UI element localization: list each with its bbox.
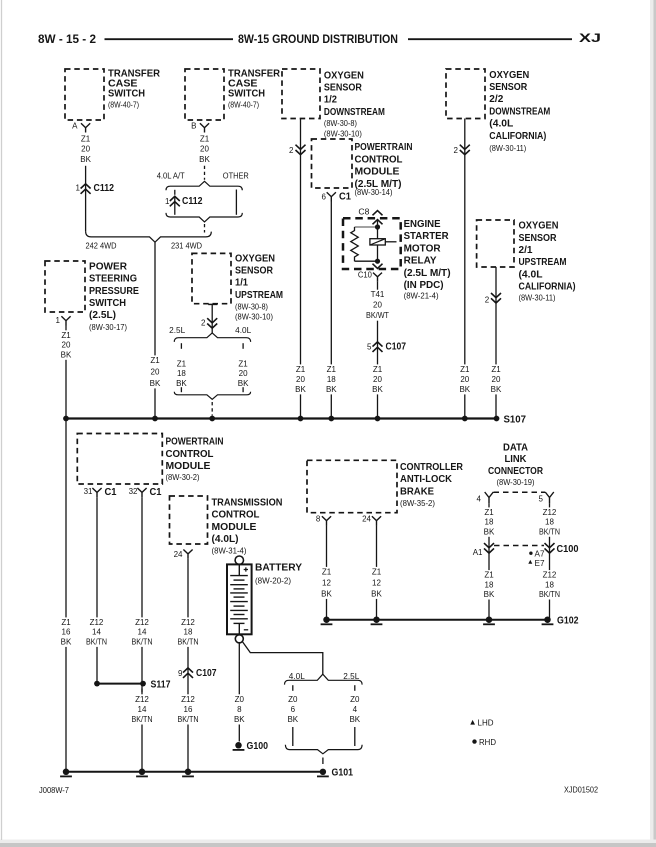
- svg-text:G100: G100: [247, 741, 269, 752]
- data link connector label: [488, 442, 544, 487]
- svg-text:OXYGEN: OXYGEN: [489, 70, 529, 81]
- svg-text:CONTROL: CONTROL: [166, 449, 214, 460]
- wire from PCM pin 32 to bottom ground bus: [141, 497, 143, 772]
- svg-text:BK: BK: [80, 155, 91, 164]
- wire Z12 16 BK/TN label: [176, 694, 201, 724]
- wire Z1 20 BK (4WD) label: [148, 355, 161, 388]
- oxygen sensor 2/1 upstream box: [477, 220, 514, 267]
- svg-text:C107: C107: [196, 668, 217, 679]
- transfer case switch (A) pin connector: [81, 123, 90, 132]
- svg-text:8W-15 GROUND DISTRIBUTION: 8W-15 GROUND DISTRIBUTION: [238, 32, 398, 46]
- ground bus G102: [327, 619, 548, 621]
- wire OTHER branch: [235, 190, 237, 215]
- svg-text:12: 12: [322, 578, 331, 587]
- svg-text:Z1: Z1: [491, 365, 501, 374]
- svg-text:C10: C10: [358, 271, 373, 280]
- variant brace top (battery branch): [285, 674, 363, 684]
- wire Z1 18 BK (2.5L) label: [176, 360, 187, 388]
- svg-text:Z1: Z1: [150, 356, 160, 365]
- svg-text:Z1: Z1: [484, 508, 494, 517]
- svg-text:BK: BK: [234, 715, 245, 724]
- svg-text:14: 14: [138, 705, 147, 714]
- svg-text:18: 18: [327, 375, 336, 384]
- svg-text:1/1: 1/1: [235, 278, 248, 289]
- svg-text:BK/TN: BK/TN: [132, 637, 153, 646]
- svg-text:2.5L: 2.5L: [169, 326, 186, 335]
- svg-text:B: B: [191, 122, 196, 131]
- wire 2.5L branch to G101 brace: [354, 727, 356, 746]
- svg-text:MODULE: MODULE: [355, 167, 400, 178]
- svg-text:SENSOR: SENSOR: [324, 83, 363, 94]
- svg-text:8W - 15 - 2: 8W - 15 - 2: [38, 32, 96, 46]
- connector C112 pin 1 (B branch): [165, 196, 203, 207]
- svg-text:20: 20: [151, 367, 160, 376]
- wire T41 20 BK/WT label: [364, 290, 391, 321]
- svg-text:2/1: 2/1: [519, 245, 533, 256]
- svg-text:BK: BK: [484, 590, 495, 599]
- oxygen sensor 1/1 upstream box: [192, 253, 231, 303]
- svg-text:T41: T41: [371, 290, 385, 299]
- connector C107 pin 9: [175, 668, 217, 680]
- svg-text:1: 1: [76, 184, 81, 193]
- svg-text:1: 1: [56, 316, 61, 325]
- wire Z1 20 BK (oxygen 1/2) label: [294, 364, 307, 394]
- svg-text:18: 18: [485, 518, 494, 527]
- wire stub 2.5L branch upper: [180, 343, 182, 349]
- relay coil output lead: [385, 241, 396, 243]
- svg-text:20: 20: [296, 375, 305, 384]
- svg-text:18: 18: [184, 628, 193, 637]
- svg-text:1: 1: [165, 197, 170, 206]
- wire from switch A to C112: [85, 166, 87, 232]
- junction on S107 at x=331.3: [328, 416, 334, 422]
- wire Z1 12 BK (CABS 24) label: [370, 567, 383, 599]
- svg-text:(8W-30-14): (8W-30-14): [355, 188, 393, 197]
- svg-text:(4.0L: (4.0L: [519, 269, 543, 280]
- svg-text:Z12: Z12: [181, 618, 195, 627]
- powertrain control module (2.5L M/T) box: [312, 139, 353, 188]
- wire from combiner to ground bus S107: [154, 242, 156, 418]
- wire Z1 20 BK (4.0L) label: [238, 360, 249, 388]
- svg-text:BATTERY: BATTERY: [255, 563, 302, 574]
- junction on S107 at x=155: [152, 416, 158, 422]
- svg-text:A: A: [72, 122, 78, 131]
- pin 24 connector (TCM): [174, 550, 193, 559]
- connector C100 pin A7 marker: [529, 549, 545, 558]
- svg-text:SWITCH: SWITCH: [228, 89, 265, 100]
- svg-text:Z1: Z1: [81, 134, 91, 143]
- ground junction at x=142: [139, 769, 146, 776]
- svg-text:(8W-30-8): (8W-30-8): [235, 302, 268, 311]
- junction on S107 at x=212.2: [209, 416, 215, 422]
- svg-text:UPSTREAM: UPSTREAM: [519, 257, 567, 268]
- pin 4 (DLC): [477, 495, 482, 504]
- header rule left: [105, 38, 234, 40]
- svg-text:5: 5: [539, 495, 544, 504]
- svg-text:Z12: Z12: [135, 695, 149, 704]
- svg-text:SWITCH: SWITCH: [89, 298, 126, 309]
- ground G100: [233, 741, 269, 752]
- svg-text:Z1: Z1: [177, 360, 187, 369]
- battery plus sign: [244, 567, 248, 571]
- connector C107 pin 5: [367, 342, 406, 353]
- transfer case switch (A) label: [108, 69, 161, 110]
- wire Z12 18 BK/TN (DLC upper) label: [537, 507, 562, 536]
- ground junction at x=326.5: [323, 616, 330, 623]
- wire from CABS pin 24 to ground bus G102: [376, 525, 378, 620]
- svg-text:UPSTREAM: UPSTREAM: [235, 290, 283, 301]
- svg-text:Z12: Z12: [90, 618, 104, 627]
- wire 4.0L A/T branch: [174, 196, 176, 215]
- svg-text:(8W-30-11): (8W-30-11): [519, 294, 556, 303]
- svg-text:BK: BK: [61, 350, 72, 359]
- svg-text:31: 31: [84, 487, 93, 496]
- powertrain control module (2.5L M/T) label: [355, 142, 413, 197]
- svg-text:Z0: Z0: [288, 695, 298, 704]
- svg-text:(8W-40-7): (8W-40-7): [228, 101, 259, 110]
- battery internal plates: [230, 564, 248, 634]
- junction on S107 at x=496.5: [494, 416, 500, 422]
- wire stub 4.0L branch lower: [242, 387, 244, 392]
- svg-text:BK: BK: [349, 715, 360, 724]
- transmission control module box: [170, 496, 208, 544]
- pin 31 connector C1: [84, 487, 117, 498]
- ground junction at x=188: [185, 769, 192, 776]
- ground G102: [542, 616, 579, 627]
- svg-text:A1: A1: [473, 548, 483, 557]
- svg-text:DOWNSTREAM: DOWNSTREAM: [489, 106, 550, 117]
- svg-text:C100: C100: [557, 544, 579, 555]
- wire Z1 20 BK (power steering) label: [59, 330, 72, 360]
- oxygen sensor 1/1 pin tick: [208, 303, 217, 305]
- ground bus S107: [66, 417, 497, 419]
- wire Z12 14 BK/TN (pin 32 upper) label: [130, 617, 155, 647]
- svg-text:(8W-30-2): (8W-30-2): [166, 473, 200, 482]
- svg-text:STARTER: STARTER: [404, 231, 450, 242]
- svg-text:20: 20: [492, 375, 501, 384]
- svg-text:8: 8: [316, 515, 321, 524]
- svg-text:20: 20: [200, 145, 209, 154]
- svg-text:(8W-30-10): (8W-30-10): [324, 129, 362, 138]
- svg-text:2: 2: [201, 319, 206, 328]
- svg-text:BK/TN: BK/TN: [178, 637, 199, 646]
- connector C100 pin E7 marker: [528, 559, 545, 568]
- relay coil wire upper: [377, 220, 379, 239]
- svg-text:S117: S117: [151, 679, 171, 690]
- svg-text:2: 2: [289, 146, 294, 155]
- junction on S107 at x=377.5: [375, 416, 381, 422]
- svg-text:C1: C1: [339, 191, 351, 202]
- wire Z1 20 BK (oxygen 2/2) label: [458, 364, 471, 394]
- svg-text:BK: BK: [199, 155, 210, 164]
- wire Z12 18 BK/TN (DLC lower) label: [537, 570, 562, 599]
- svg-text:MODULE: MODULE: [212, 522, 257, 533]
- relay bottom junction: [375, 259, 380, 264]
- svg-text:PRESSURE: PRESSURE: [89, 286, 139, 297]
- svg-text:G101: G101: [332, 768, 354, 779]
- svg-text:Z12: Z12: [543, 571, 557, 580]
- svg-text:CONTROLLER: CONTROLLER: [400, 462, 464, 473]
- svg-text:G102: G102: [557, 616, 579, 627]
- svg-text:Z1: Z1: [238, 360, 248, 369]
- svg-text:(8W-20-2): (8W-20-2): [255, 577, 291, 586]
- svg-text:RELAY: RELAY: [404, 256, 437, 267]
- connector pin 2 (oxygen 1/1): [201, 318, 217, 328]
- svg-text:Z0: Z0: [350, 695, 360, 704]
- dashed wire below variant brace: [204, 224, 206, 233]
- svg-text:MODULE: MODULE: [166, 461, 211, 472]
- controller anti-lock brake label: [400, 462, 464, 508]
- variant brace bottom (oxygen 1/1): [174, 392, 250, 400]
- wire from relay C10 to ground bus S107: [377, 282, 379, 419]
- svg-text:24: 24: [174, 550, 183, 559]
- wire Z12 14 BK/TN (pin 31) label: [84, 617, 109, 647]
- svg-text:J008W-7: J008W-7: [39, 786, 70, 795]
- wire Z12 14 BK/TN (below S117) label: [130, 694, 155, 724]
- variant brace bottom (battery branch): [285, 745, 362, 754]
- wire stub 2.5L branch (battery): [354, 685, 356, 691]
- relay coil symbol: [370, 239, 385, 245]
- svg-text:(8W-40-7): (8W-40-7): [108, 101, 139, 110]
- connector pin 2 (oxygen 2/2): [454, 145, 470, 155]
- svg-text:Z12: Z12: [135, 618, 149, 627]
- svg-text:LINK: LINK: [505, 454, 528, 465]
- svg-text:5: 5: [367, 342, 372, 351]
- wire from PCM pin 6 to ground bus S107: [330, 202, 332, 419]
- header rule right: [408, 38, 572, 40]
- ground junction at x=489: [486, 616, 493, 623]
- splice S117 junction right: [140, 681, 146, 687]
- oxygen sensor 2/1 upstream label: [519, 221, 576, 303]
- svg-text:BK: BK: [287, 715, 298, 724]
- svg-text:(8W-35-2): (8W-35-2): [400, 499, 435, 508]
- battery minus sign: [244, 629, 248, 631]
- combiner brace 242 4WD / 231 4WD: [86, 231, 212, 242]
- wire from oxygen sensor 1/1 to variant brace: [211, 304, 213, 333]
- svg-text:(8W-30-8): (8W-30-8): [324, 119, 357, 128]
- svg-text:Z1: Z1: [61, 331, 71, 340]
- controller anti-lock brake box: [307, 460, 397, 512]
- svg-text:CALIFORNIA): CALIFORNIA): [489, 131, 546, 142]
- pin 6 connector C1: [322, 191, 352, 202]
- wire Z1 18 BK (DLC lower) label: [482, 570, 495, 599]
- svg-text:(8W-21-4): (8W-21-4): [404, 292, 439, 301]
- variant brace top (oxygen 1/1): [174, 333, 250, 342]
- splice S117 link: [97, 683, 143, 685]
- svg-text:(8W-30-19): (8W-30-19): [497, 478, 535, 487]
- wire from power steering switch to bottom ground bus: [65, 326, 67, 772]
- svg-text:Z12: Z12: [543, 508, 557, 517]
- engine starter motor relay label: [404, 219, 451, 301]
- svg-text:BK: BK: [176, 379, 187, 388]
- svg-text:Z1: Z1: [322, 567, 332, 576]
- connector pin 2 (oxygen 2/1): [485, 293, 501, 305]
- svg-text:LHD: LHD: [478, 718, 494, 727]
- svg-text:BK/WT: BK/WT: [366, 311, 389, 320]
- dashed wire to ground bus S107 (oxygen 1/1): [211, 402, 213, 416]
- wire Z1 18 BK (DLC upper) label: [482, 507, 495, 536]
- svg-text:DATA: DATA: [503, 442, 528, 453]
- svg-text:DOWNSTREAM: DOWNSTREAM: [324, 107, 385, 118]
- wire from oxygen sensor 1/2 to ground bus S107: [300, 119, 302, 419]
- svg-text:CONTROL: CONTROL: [212, 510, 260, 521]
- connector C8 chevron above relay: [373, 211, 383, 216]
- relay top junction: [375, 224, 380, 229]
- wire Z1 12 BK (CABS 8) label: [320, 567, 333, 599]
- wire Z12 18 BK/TN (TCM) label: [176, 617, 201, 647]
- oxygen sensor 1/2 downstream label: [324, 70, 385, 138]
- junction on S107 at x=464.8: [462, 416, 468, 422]
- svg-text:STEERING: STEERING: [89, 274, 137, 285]
- svg-text:6: 6: [291, 705, 296, 714]
- relay internal bottom lead: [355, 260, 378, 262]
- svg-text:XJ: XJ: [579, 31, 601, 45]
- power steering pressure switch label: [89, 261, 139, 332]
- pin 1 (power steering switch): [56, 316, 71, 326]
- svg-text:32: 32: [129, 487, 138, 496]
- connector pin 2 (oxygen 1/2): [289, 145, 305, 155]
- svg-text:BK: BK: [326, 385, 337, 394]
- svg-text:CALIFORNIA): CALIFORNIA): [519, 282, 576, 293]
- svg-text:(4.0L: (4.0L: [489, 119, 513, 130]
- splice S117 junction left: [94, 681, 100, 687]
- svg-text:2/2: 2/2: [489, 94, 503, 105]
- svg-text:OXYGEN: OXYGEN: [324, 70, 364, 81]
- svg-text:SENSOR: SENSOR: [489, 82, 528, 93]
- battery B1 box: [227, 564, 252, 634]
- svg-text:OXYGEN: OXYGEN: [519, 221, 559, 232]
- svg-text:RHD: RHD: [479, 738, 496, 747]
- engine starter motor relay box: [343, 218, 401, 269]
- svg-text:2: 2: [485, 296, 490, 305]
- svg-text:2.5L: 2.5L: [343, 672, 360, 681]
- svg-text:(8W-31-4): (8W-31-4): [212, 546, 247, 555]
- svg-text:16: 16: [62, 628, 71, 637]
- pin 24 (CABS): [362, 515, 381, 526]
- wire stub below S117: [141, 689, 143, 693]
- wire branch from battery negative to engine-variant brace: [242, 642, 322, 675]
- junction on S107 at x=66: [63, 416, 69, 422]
- svg-text:BK: BK: [295, 385, 306, 394]
- svg-text:20: 20: [81, 145, 90, 154]
- powertrain control module box: [77, 434, 162, 485]
- svg-text:BK: BK: [150, 379, 161, 388]
- ground bus to G101: [66, 771, 323, 773]
- svg-text:Z1: Z1: [61, 618, 71, 627]
- pin 8 (CABS): [316, 515, 331, 526]
- svg-text:SENSOR: SENSOR: [519, 233, 558, 244]
- wire from DLC pin 4 to ground bus G102: [488, 503, 490, 619]
- svg-text:(8W-30-10): (8W-30-10): [235, 313, 273, 322]
- svg-text:9: 9: [178, 669, 183, 678]
- svg-text:OTHER: OTHER: [223, 171, 249, 180]
- powertrain control module label: [166, 437, 224, 482]
- dashed wire from switch B to variant brace: [204, 166, 206, 180]
- connector C112 pin 1 (A branch): [76, 183, 115, 194]
- svg-text:20: 20: [373, 375, 382, 384]
- svg-text:E7: E7: [535, 559, 546, 568]
- connector C8 chevron inside relay: [373, 220, 383, 225]
- svg-text:S107: S107: [504, 414, 527, 425]
- svg-text:BK/TN: BK/TN: [539, 527, 560, 536]
- svg-text:A7: A7: [535, 549, 546, 558]
- svg-text:242 4WD: 242 4WD: [86, 242, 117, 251]
- wire Z1 20 BK (B branch) label: [199, 134, 210, 164]
- svg-text:C112: C112: [94, 183, 115, 194]
- svg-text:POWERTRAIN: POWERTRAIN: [355, 142, 413, 153]
- svg-text:(8W-30-17): (8W-30-17): [89, 323, 127, 332]
- svg-text:4.0L: 4.0L: [235, 326, 252, 335]
- oxygen sensor 1/1 upstream label: [235, 253, 283, 321]
- svg-text:BK: BK: [372, 385, 383, 394]
- svg-text:Z1: Z1: [327, 365, 337, 374]
- svg-text:BK/TN: BK/TN: [178, 715, 199, 724]
- wire Z1 20 BK (oxygen 2/1) label: [489, 364, 502, 394]
- svg-text:6: 6: [322, 192, 327, 201]
- svg-text:BK: BK: [61, 637, 72, 646]
- svg-text:20: 20: [239, 369, 248, 378]
- svg-text:BK/TN: BK/TN: [132, 715, 153, 724]
- svg-text:Z1: Z1: [372, 567, 382, 576]
- battery positive terminal: [235, 556, 243, 564]
- wire from CABS pin 8 to ground bus G102: [326, 525, 328, 620]
- svg-text:POWERTRAIN: POWERTRAIN: [166, 437, 224, 448]
- wire 4.0L branch to G101 brace: [292, 727, 294, 746]
- connector C10 pin below relay: [373, 273, 382, 282]
- svg-text:C107: C107: [386, 342, 407, 353]
- svg-text:12: 12: [372, 578, 381, 587]
- svg-text:BK/TN: BK/TN: [86, 637, 107, 646]
- svg-text:231 4WD: 231 4WD: [171, 242, 202, 251]
- svg-text:Z1: Z1: [296, 365, 306, 374]
- oxygen sensor 2/2 downstream box: [446, 69, 485, 119]
- svg-text:BK: BK: [321, 589, 332, 598]
- svg-text:(8W-30-11): (8W-30-11): [489, 144, 526, 153]
- svg-text:4: 4: [477, 495, 482, 504]
- connector C100 dashed body: [494, 545, 544, 547]
- wire from oxygen sensor 2/1 to ground bus S107: [495, 267, 497, 419]
- transfer case switch (B) box: [185, 69, 224, 120]
- variant brace top: [166, 181, 242, 190]
- svg-text:24: 24: [362, 515, 371, 524]
- transmission control module label: [212, 498, 283, 556]
- svg-text:18: 18: [485, 580, 494, 589]
- svg-text:OXYGEN: OXYGEN: [235, 253, 275, 264]
- svg-text:Z1: Z1: [373, 365, 383, 374]
- svg-text:XJD01502: XJD01502: [564, 786, 599, 795]
- relay internal resistor: [351, 227, 358, 261]
- svg-text:C1: C1: [150, 487, 162, 498]
- svg-text:4.0L: 4.0L: [289, 672, 306, 681]
- power steering pressure switch box: [45, 261, 85, 312]
- svg-text:C112: C112: [182, 196, 203, 207]
- wire stub 4.0L branch upper: [242, 343, 244, 349]
- svg-text:Z1: Z1: [460, 365, 470, 374]
- oxygen sensor 2/2 downstream label: [489, 70, 550, 153]
- wire stub 2.5L branch lower: [180, 387, 182, 392]
- wire from PCM pin 31 to splice S117: [96, 497, 98, 683]
- connector C100 right chevrons: [545, 543, 555, 553]
- svg-text:TRANSMISSION: TRANSMISSION: [212, 498, 283, 509]
- svg-text:SWITCH: SWITCH: [108, 89, 145, 100]
- ground junction at x=66: [63, 769, 70, 776]
- svg-text:(4.0L): (4.0L): [212, 534, 239, 545]
- svg-text:4: 4: [353, 705, 358, 714]
- svg-text:Z1: Z1: [200, 134, 210, 143]
- dashed wire to ground G101: [322, 758, 324, 765]
- svg-text:BK: BK: [459, 385, 470, 394]
- wire Z1 16 BK label: [59, 617, 72, 647]
